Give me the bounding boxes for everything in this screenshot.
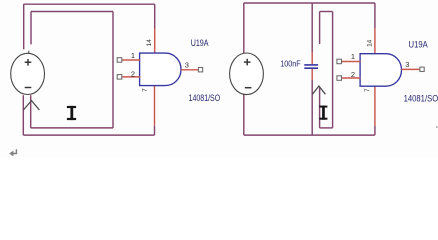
wire: left circuit inner left vertical below source xyxy=(30,95,32,128)
svg-text:3: 3 xyxy=(405,60,409,69)
wire: left circuit right vertical up to pin 7 xyxy=(154,126,156,135)
current marker I (right) xyxy=(319,106,327,120)
svg-text:2: 2 xyxy=(131,70,135,79)
current marker I (left) xyxy=(67,106,76,120)
svg-text:U19A: U19A xyxy=(191,38,209,49)
pin 1 terminal square xyxy=(117,58,122,63)
pin 1 terminal square (right) xyxy=(337,59,342,64)
wire: probe box bottom edge xyxy=(320,127,333,129)
wire: left circuit inner right vertical (pin1/pin2 feed) xyxy=(112,12,114,128)
svg-text:14081/SO: 14081/SO xyxy=(404,94,438,104)
carriage return symbol xyxy=(9,149,16,156)
svg-text:1: 1 xyxy=(351,52,355,61)
voltage source V2 (right) xyxy=(230,53,264,95)
wire: right circuit top (V+ to pin14) xyxy=(244,2,375,4)
svg-text:100nF: 100nF xyxy=(280,58,300,68)
wire: left circuit outer left vertical below source xyxy=(22,95,24,135)
wire: left circuit outer bottom (V- to pin7) xyxy=(23,134,154,136)
capacitor C1 plates xyxy=(304,65,318,68)
pin 2 terminal square xyxy=(117,75,122,80)
wire: capacitor branch upper xyxy=(311,3,313,52)
svg-text:U19A: U19A xyxy=(409,39,429,50)
wire: left circuit inner left vertical above source xyxy=(30,12,32,45)
pin 14 stub U19A right xyxy=(374,28,376,54)
op-amp/AND gate U19A left body xyxy=(140,53,181,86)
minus sign of V2 xyxy=(245,87,252,89)
svg-text:14081/SO: 14081/SO xyxy=(189,93,221,103)
wire: left circuit inner top (V+ to pin1 feed) xyxy=(31,11,113,13)
pin 1 stub xyxy=(122,59,140,61)
wire: right circuit right vertical up to pin 7 xyxy=(374,126,376,135)
wire: left circuit inner bottom xyxy=(31,127,113,129)
terminal tick above V1 xyxy=(28,51,30,54)
svg-text:2: 2 xyxy=(351,70,355,79)
plus sign of V2 xyxy=(244,59,251,66)
pin 2 stub (right) xyxy=(342,77,361,79)
wire: right circuit bottom (V- to pin7) xyxy=(244,134,375,136)
pin 1 stub (right) xyxy=(342,61,361,63)
current probe arrow (left) xyxy=(23,101,39,110)
wire: left circuit outer top (V+ to pin14) xyxy=(23,3,154,5)
pin 2 terminal square (right) xyxy=(337,76,342,81)
pin 7 stub U19A left xyxy=(154,86,156,126)
minus sign of V1 xyxy=(25,87,32,89)
voltage source V1 (left) xyxy=(11,53,45,94)
plus sign of V1 xyxy=(25,59,32,66)
wire: right circuit right vertical down to pin 14 xyxy=(374,3,376,28)
svg-text:14: 14 xyxy=(146,39,153,47)
pin 2 stub xyxy=(122,76,140,78)
current probe arrow (right) xyxy=(312,86,325,94)
capacitor C bottom lead xyxy=(311,69,313,80)
AND gate U19A right body xyxy=(360,54,401,86)
wire: capacitor branch lower xyxy=(311,80,313,135)
pin 7 stub U19A right xyxy=(374,86,376,126)
svg-text:1: 1 xyxy=(131,51,135,60)
svg-text:7: 7 xyxy=(364,88,371,92)
wire: probe box left lower segment xyxy=(319,87,321,128)
wire: probe box top edge xyxy=(320,11,333,13)
wire: left circuit outer left vertical above source xyxy=(23,4,25,49)
stray period mark xyxy=(436,126,438,128)
wire: right circuit left vertical below source xyxy=(243,95,245,136)
capacitor C top lead xyxy=(311,52,313,64)
svg-text:7: 7 xyxy=(142,88,149,92)
wire: left circuit outer right vertical down to pin 14 xyxy=(154,4,156,28)
svg-text:14: 14 xyxy=(367,39,374,47)
pin 3 terminal square xyxy=(198,68,202,72)
wire: right circuit left vertical above source xyxy=(243,3,245,54)
pin 14 stub U19A left xyxy=(154,29,156,54)
wire: probe box right edge (pin1/pin2 feed) xyxy=(332,12,334,128)
pin 3 terminal square (right) xyxy=(420,67,424,71)
pin 3 stub xyxy=(181,69,199,71)
wire: probe box left upper segment xyxy=(319,12,321,45)
svg-text:3: 3 xyxy=(185,61,189,70)
pin 3 stub (right) xyxy=(401,68,420,70)
